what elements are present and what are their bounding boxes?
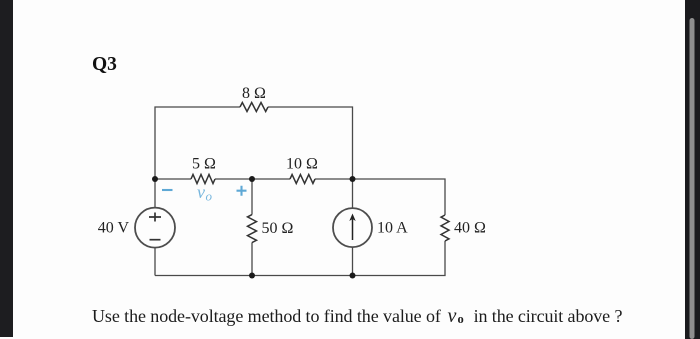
wire current source top xyxy=(352,179,354,208)
right black border strip xyxy=(685,0,700,339)
wire right branch bottom xyxy=(155,241,445,276)
scrollbar thumb xyxy=(690,18,695,339)
voltage source V1 circle xyxy=(135,208,175,248)
svg-text:v: v xyxy=(448,305,457,327)
node A dot xyxy=(152,176,158,182)
svg-text:50 Ω: 50 Ω xyxy=(262,220,294,237)
resistor R 5ohm zigzag xyxy=(191,175,215,184)
wire top left horizontal xyxy=(155,107,240,179)
svg-text:Use the node-voltage method to: Use the node-voltage method to find the … xyxy=(92,306,441,326)
polarity plus sign (blue) xyxy=(237,186,247,196)
svg-text:40 Ω: 40 Ω xyxy=(454,220,486,237)
wire voltage source bottom xyxy=(154,248,156,276)
wire middle left (node A to 5 ohm) xyxy=(155,178,191,180)
node C dot xyxy=(350,176,356,182)
polarity minus sign (blue) xyxy=(162,189,173,191)
node E dot (bottom current source) xyxy=(350,273,356,279)
wire current source bottom xyxy=(352,247,354,275)
resistor R 50ohm vertical zigzag xyxy=(248,215,257,243)
resistor R 10ohm zigzag xyxy=(290,175,315,184)
svg-text:10 A: 10 A xyxy=(377,220,408,237)
left black border strip xyxy=(0,0,13,337)
svg-text:Q3: Q3 xyxy=(92,54,117,75)
current source I1 circle xyxy=(333,208,372,247)
svg-text:in the circuit above ?: in the circuit above ? xyxy=(474,306,623,326)
svg-text:5 Ω: 5 Ω xyxy=(192,156,216,173)
wire 10 ohm to node C xyxy=(315,178,353,180)
wire 50 ohm branch top xyxy=(251,179,253,215)
resistor R 40ohm vertical zigzag xyxy=(441,215,449,241)
wire voltage source top xyxy=(154,179,156,208)
node D dot (bottom 50 ohm) xyxy=(249,273,255,279)
svg-text:8 Ω: 8 Ω xyxy=(242,85,266,102)
voltage source minus sign xyxy=(150,239,161,241)
wire node C to right branch xyxy=(353,179,446,215)
current source arrow xyxy=(349,214,355,241)
resistor R 8ohm zigzag xyxy=(240,103,268,112)
svg-text:40 V: 40 V xyxy=(98,220,130,237)
svg-text:o: o xyxy=(458,312,464,326)
svg-text:10 Ω: 10 Ω xyxy=(286,156,318,173)
node B dot xyxy=(249,176,255,182)
wire 5 ohm to node B xyxy=(215,178,290,180)
wire top right horizontal xyxy=(268,107,353,179)
wire 50 ohm branch bottom xyxy=(251,243,253,276)
voltage source plus sign xyxy=(149,213,161,222)
